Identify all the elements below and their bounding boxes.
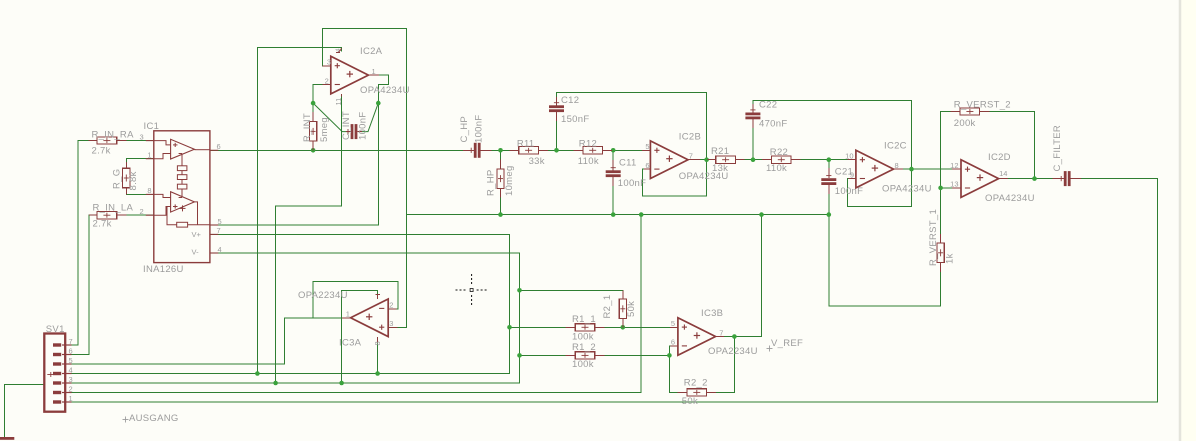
wire C11 column to V_REF bus: [612, 150, 614, 214]
junction R1_2 on V- riser: [517, 353, 522, 358]
svg-text:1: 1: [69, 394, 73, 403]
op-amp U3: IC2B OPA4234U: [650, 141, 688, 179]
svg-text:SV1: SV1: [46, 324, 65, 335]
svg-text:R1_1: R1_1: [572, 314, 596, 325]
wire IC1 pin4 V- right, down to SV1 pin3 wire: [65, 253, 519, 383]
svg-text:C12: C12: [561, 95, 579, 106]
junction SV1 pin2 riser on bus: [639, 212, 644, 217]
wire C_INT right diagonal to output node: [358, 103, 379, 132]
svg-text:R1_2: R1_2: [572, 342, 596, 353]
junction C12 bottom on main wire: [554, 148, 559, 153]
svg-text:8: 8: [147, 186, 151, 195]
wire IC1 pin7 V+ right, down to SV1 pin4 wire: [65, 234, 509, 373]
svg-text:100nF: 100nF: [473, 115, 484, 143]
svg-text:2: 2: [69, 385, 73, 394]
IC U1: IC1 INA126U instrumentation amplifier box: [146, 131, 219, 263]
svg-text:6: 6: [69, 347, 73, 356]
svg-text:2: 2: [325, 76, 329, 85]
svg-text:C11: C11: [619, 157, 637, 168]
svg-text:10: 10: [845, 152, 853, 161]
svg-text:14: 14: [999, 169, 1007, 178]
connector SV1 7-pin header: [44, 334, 71, 412]
svg-text:R_HP: R_HP: [486, 169, 497, 196]
svg-text:C22: C22: [759, 99, 777, 110]
resistor R_G 8.8k: [123, 162, 130, 194]
capacitor C12 150nF: [549, 97, 564, 121]
junction IC3B -in node: [667, 353, 672, 358]
wire R1_1 row to IC3B +in: [510, 326, 678, 328]
svg-text:50k: 50k: [682, 396, 698, 407]
svg-text:R_VERST_2: R_VERST_2: [954, 100, 1011, 111]
wire IC3B output right and up to V_REF bus: [716, 215, 762, 337]
svg-text:100nF: 100nF: [357, 112, 368, 140]
svg-text:50k: 50k: [626, 301, 637, 317]
cursor crosshair: [456, 274, 488, 306]
wire IC2D -in (pin13) node: [941, 187, 961, 189]
resistor R21 13k: [708, 156, 745, 163]
wire R_IN_RA to IC1 pin3: [117, 140, 154, 142]
wire R_INT column (node to main wire): [312, 103, 314, 150]
wire R_VERST_2 right leg down to IC2D output: [981, 112, 1034, 179]
svg-text:7: 7: [689, 152, 693, 161]
wire V_REF distribution: IC2A +in loop, down right side to IC3A +in: [322, 28, 406, 327]
wire main signal net (IC1 pin6 to IC2B +in): [210, 149, 651, 151]
junction C_INT/output node: [376, 101, 381, 106]
svg-text:V_REF: V_REF: [771, 338, 803, 349]
wire IC2D output net via C_FILTER down to SV1 pin1 (AUSGANG): [65, 179, 1157, 402]
svg-text:OPA4234U: OPA4234U: [882, 183, 932, 194]
svg-text:4: 4: [218, 245, 222, 254]
wire IC3A feedback loop output to -in (pin2): [313, 282, 398, 318]
wire SV1 left side to ground: [5, 385, 46, 438]
op-amp IC3A bottom power pin stub: [377, 337, 379, 343]
resistor R22 110k: [762, 156, 801, 163]
svg-text:110k: 110k: [766, 163, 787, 174]
svg-text:5: 5: [645, 142, 649, 151]
wire IC2C output net to IC2D +in: [894, 168, 961, 170]
wire R2_2 right up to IC3B output: [707, 337, 735, 393]
junction R1_1 on V+ riser: [507, 325, 512, 330]
op-amp U5: IC2D OPA4234U: [961, 160, 999, 198]
svg-text:IC2D: IC2D: [988, 152, 1011, 163]
canvas right edge divider: [1181, 0, 1196, 441]
svg-text:6: 6: [671, 338, 675, 347]
svg-text:5: 5: [69, 356, 73, 365]
svg-text:100nF: 100nF: [835, 186, 863, 197]
wire IC3B -in node down to R2_2: [669, 346, 686, 393]
svg-text:R21: R21: [711, 146, 729, 157]
wire R_IN_LA to IC1 pin2: [117, 214, 154, 216]
junction R12/C11 node: [611, 148, 616, 153]
op-amp U6: IC3A OPA2234U (mirrored): [351, 299, 389, 337]
svg-text:R2_2: R2_2: [684, 378, 708, 389]
svg-text:100k: 100k: [572, 359, 594, 370]
svg-text:1: 1: [346, 310, 350, 319]
capacitor C22 470nF: [745, 104, 760, 128]
svg-text:IC3B: IC3B: [701, 308, 723, 319]
wire R1_2 row: [520, 354, 670, 356]
svg-text:R12: R12: [579, 139, 597, 150]
junction R22/C21 node: [827, 157, 832, 162]
svg-text:12: 12: [950, 161, 958, 170]
svg-text:R_IN_RA: R_IN_RA: [92, 129, 135, 140]
svg-text:2: 2: [140, 207, 144, 216]
wire C12 column, top loop over IC2B, feedback box to IC2B -in: [557, 93, 707, 196]
svg-text:9: 9: [850, 170, 854, 179]
junction V+ riser on SV1 pin4 wire: [255, 371, 260, 376]
svg-text:5: 5: [671, 319, 675, 328]
svg-text:5: 5: [218, 217, 222, 226]
wire IC3A bottom power pin to SV1 pin4 wire: [377, 343, 379, 374]
svg-text:6: 6: [217, 142, 221, 151]
resistor R1_2 100k: [566, 352, 605, 359]
wire IC2A output jog down to C_INT node and IC1 pin5 (REF): [210, 75, 389, 225]
op-amp U2: IC2A OPA4234U: [331, 56, 369, 94]
junction IC2D -in/R_VERST_1: [938, 186, 943, 191]
svg-text:100nF: 100nF: [618, 178, 646, 189]
junction IC2D out/R_VERST_2: [1032, 176, 1037, 181]
svg-text:1: 1: [372, 67, 376, 76]
wire IC2A -in (pin2) down to R_INT/C_INT node: [313, 85, 331, 104]
svg-text:3: 3: [327, 58, 331, 67]
wire SV1 pin7 up to R_IN_RA input: [72, 141, 89, 345]
svg-text:6: 6: [645, 161, 649, 170]
svg-text:3: 3: [69, 375, 73, 384]
op-amp IC2A power pin 11 stub: [341, 94, 343, 97]
svg-text:470nF: 470nF: [759, 118, 787, 129]
wire SV1 pin5 wire up to IC3A output: [65, 318, 350, 364]
svg-text:IC3A: IC3A: [339, 338, 362, 349]
resistor R_VERST_1 1k: [937, 234, 944, 272]
junction IC3B output node: [732, 334, 737, 339]
resistor R1_1 100k: [566, 324, 605, 331]
svg-text:C_FILTER: C_FILTER: [1052, 125, 1063, 172]
resistor R_HP 10meg: [497, 160, 504, 198]
capacitor C11 100nF: [606, 160, 621, 186]
svg-text:13k: 13k: [712, 163, 728, 174]
wire C_INT left diagonal: [313, 103, 351, 132]
svg-text:110k: 110k: [578, 156, 599, 167]
junction IC3A top power riser on SV1 pin3 wire: [339, 381, 344, 386]
svg-text:IC1: IC1: [144, 121, 160, 132]
svg-text:R_G: R_G: [112, 169, 123, 189]
capacitor C_FILTER: [1053, 171, 1081, 186]
svg-text:R11: R11: [517, 139, 535, 150]
svg-text:3: 3: [389, 319, 393, 328]
svg-text:R_INT: R_INT: [302, 113, 313, 142]
wire V_REF bus (horizontal rail): [406, 214, 828, 216]
op-amp IC2A power pin 4 stub: [338, 49, 341, 53]
junction IC2C out/feedback: [909, 167, 914, 172]
op-amp input/output maroon pin leads: [323, 66, 1009, 346]
resistor R2_2 50k: [678, 389, 717, 396]
svg-text:R2_1: R2_1: [602, 295, 613, 319]
resistor R2_1 50k: [619, 290, 626, 327]
wire R_G loop IC1 pin1 to pin8: [126, 159, 154, 195]
svg-text:100k: 100k: [572, 331, 594, 342]
svg-text:11: 11: [334, 98, 343, 106]
svg-text:OPA4234U: OPA4234U: [360, 85, 410, 96]
svg-text:150nF: 150nF: [561, 114, 589, 125]
svg-text:IC2C: IC2C: [884, 141, 907, 152]
junction IC2A -in node: [311, 101, 316, 106]
svg-text:7: 7: [719, 328, 723, 337]
wire C21 column, loop to R_VERST_1 and R_VERST_2 left leg: [829, 112, 959, 307]
resistor R12 110k: [574, 147, 612, 154]
op-amp U4: IC2C OPA4234U: [856, 150, 894, 188]
wire IC2B output net (to IC2C +in via R21 R22): [688, 159, 856, 161]
svg-text:OPA4234U: OPA4234U: [985, 193, 1035, 204]
wire IC3A top power pin to SV1 pin3 wire: [342, 290, 378, 383]
svg-text:R_IN_LA: R_IN_LA: [93, 202, 134, 213]
net label V_REF: [767, 338, 804, 352]
resistor R_INT 5meg: [310, 112, 317, 150]
svg-text:R_VERST_1: R_VERST_1: [928, 209, 939, 266]
net label AUSGANG: [123, 413, 179, 424]
svg-text:OPA2234U: OPA2234U: [298, 290, 348, 301]
junction C21 bottom at bus end: [827, 212, 832, 217]
svg-text:V-: V-: [192, 248, 200, 257]
capacitor C_HP 100nF: [463, 143, 492, 158]
svg-text:2.7k: 2.7k: [92, 146, 111, 157]
capacitor C_INT 100nF: [346, 124, 362, 139]
junction R2_1 bottom on R1_1 row: [621, 325, 626, 330]
capacitor C21 100nF: [821, 168, 836, 194]
junction IC2A V- riser on SV1 pin3 wire: [273, 381, 278, 386]
op-amp IC3A top power pin stub: [377, 294, 379, 299]
junction R_HP bottom on bus: [498, 212, 503, 217]
wire IC2A pin11 V- down, left, down to SV1 pin3 wire: [276, 96, 342, 383]
svg-text:13: 13: [950, 180, 958, 189]
svg-text:4: 4: [335, 48, 342, 52]
wire V+ rail from SV1 pin4 wire up and over to IC2A pin4 stub: [257, 47, 341, 373]
wire R_HP column: [500, 150, 502, 214]
svg-text:200k: 200k: [954, 118, 976, 129]
svg-text:INA126U: INA126U: [143, 264, 184, 275]
svg-text:C_INT: C_INT: [341, 111, 352, 140]
svg-text:R22: R22: [770, 147, 788, 158]
junction IC3B out riser on bus: [759, 212, 764, 217]
svg-text:OPA2234U: OPA2234U: [708, 346, 758, 357]
wire R2_1 top feed from V- rail: [520, 290, 623, 327]
svg-text:IC2A: IC2A: [360, 46, 383, 57]
svg-text:1: 1: [147, 151, 151, 160]
resistor R11 33k: [509, 147, 547, 154]
junction R2_1 feed on V- riser: [517, 288, 522, 293]
svg-text:5meg: 5meg: [319, 117, 330, 142]
junction IC3A bottom power on SV1 pin4 wire: [375, 371, 380, 376]
svg-text:IC2B: IC2B: [679, 131, 701, 142]
resistor R_IN_RA 2.7k: [88, 137, 126, 144]
svg-text:33k: 33k: [529, 156, 545, 167]
svg-text:2.7k: 2.7k: [93, 219, 112, 230]
svg-text:4: 4: [69, 366, 73, 375]
junction IC2B out/R21/feedback: [704, 157, 709, 162]
svg-text:V+: V+: [192, 230, 202, 239]
svg-text:8: 8: [895, 161, 899, 170]
junction R_INT bottom on main wire: [311, 148, 316, 153]
svg-text:1k: 1k: [944, 253, 955, 264]
resistor R_IN_LA 2.7k: [89, 212, 127, 219]
svg-text:C_HP: C_HP: [459, 116, 470, 143]
wire C22 column, top loop over IC2C, feedback box to IC2C -in: [753, 101, 912, 207]
ground symbol at SV1 net: [0, 437, 14, 440]
svg-text:7: 7: [217, 226, 221, 235]
svg-text:7: 7: [69, 337, 73, 346]
svg-text:2: 2: [389, 301, 393, 310]
junction R21/C22/R22 node: [751, 157, 756, 162]
junction C_HP/R_HP node: [498, 148, 503, 153]
svg-text:8: 8: [373, 341, 382, 345]
wire SV1 pin2 long wire up to V_REF bus: [65, 215, 641, 393]
op-amp U7: IC3B OPA2234U: [678, 318, 716, 356]
wire SV1 pin6 up to R_IN_LA input: [72, 215, 98, 354]
svg-text:3: 3: [140, 132, 144, 141]
resistor R_VERST_2 200k: [951, 108, 990, 115]
svg-text:AUSGANG: AUSGANG: [129, 413, 179, 424]
junction C11 bottom on bus: [611, 212, 616, 217]
svg-text:10meg: 10meg: [504, 165, 515, 196]
svg-text:8.8k: 8.8k: [128, 171, 139, 190]
